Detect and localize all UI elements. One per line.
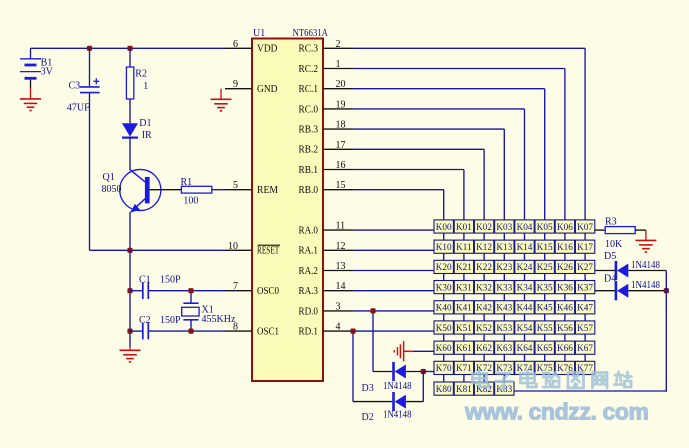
svg-text:K21: K21 [456,262,472,272]
svg-text:1: 1 [143,81,148,92]
svg-text:16: 16 [336,160,346,171]
svg-text:8050: 8050 [102,184,122,195]
svg-text:K17: K17 [577,242,593,252]
svg-text:K43: K43 [496,303,512,313]
svg-text:K52: K52 [476,323,492,333]
svg-text:D3: D3 [362,383,374,394]
svg-text:RC.2: RC.2 [299,64,319,75]
svg-text:9: 9 [233,79,238,90]
svg-text:K25: K25 [537,262,553,272]
svg-text:K54: K54 [517,323,533,333]
svg-text:RA.2: RA.2 [299,266,319,277]
svg-text:K00: K00 [436,222,452,232]
svg-text:C3: C3 [69,80,81,91]
svg-text:K62: K62 [476,343,492,353]
svg-text:C2: C2 [139,315,151,326]
svg-text:RB.0: RB.0 [299,185,319,196]
svg-text:K34: K34 [517,282,533,292]
svg-text:K20: K20 [436,262,452,272]
svg-text:K26: K26 [557,262,573,272]
svg-text:2: 2 [336,39,341,50]
svg-text:K42: K42 [476,303,492,313]
svg-text:K74: K74 [517,363,533,373]
svg-text:K60: K60 [436,343,452,353]
svg-text:13: 13 [336,261,346,272]
svg-text:R3: R3 [605,216,617,227]
svg-text:K05: K05 [537,222,553,232]
svg-text:K61: K61 [456,343,472,353]
svg-text:47UF: 47UF [67,102,90,113]
svg-text:K22: K22 [476,262,492,272]
svg-text:K12: K12 [476,242,492,252]
svg-text:K27: K27 [577,262,593,272]
svg-text:1: 1 [336,59,341,70]
svg-text:D4: D4 [604,273,616,284]
svg-text:K51: K51 [456,323,472,333]
svg-text:D1: D1 [139,118,151,129]
svg-text:K80: K80 [436,384,452,394]
svg-text:K23: K23 [496,262,512,272]
svg-text:RB.2: RB.2 [299,145,319,156]
svg-text:K15: K15 [537,242,553,252]
svg-text:12: 12 [336,241,346,252]
svg-text:1N4148: 1N4148 [631,280,660,291]
svg-text:K14: K14 [517,242,533,252]
svg-text:K63: K63 [496,343,512,353]
svg-text:Q1: Q1 [103,172,115,183]
svg-text:1N4148: 1N4148 [383,381,412,392]
svg-text:K33: K33 [496,282,512,292]
svg-text:150P: 150P [160,274,181,285]
svg-text:C1: C1 [139,274,151,285]
svg-text:K31: K31 [456,282,472,292]
svg-text:RC.1: RC.1 [299,84,319,95]
svg-text:10: 10 [228,241,238,252]
svg-text:RA.3: RA.3 [299,286,319,297]
svg-text:RA.0: RA.0 [299,226,319,237]
svg-text:11: 11 [336,221,346,232]
svg-text:17: 17 [336,140,346,151]
svg-text:K13: K13 [496,242,512,252]
svg-text:K56: K56 [557,323,573,333]
svg-text:K37: K37 [577,282,593,292]
svg-text:RC.0: RC.0 [299,104,319,115]
svg-text:OSC1: OSC1 [257,327,279,338]
svg-text:RD.1: RD.1 [299,327,319,338]
svg-text:K41: K41 [456,303,472,313]
svg-text:K65: K65 [537,343,553,353]
svg-text:RESET: RESET [257,246,279,257]
svg-text:20: 20 [336,79,346,90]
svg-text:RA.1: RA.1 [299,246,319,257]
svg-text:K57: K57 [577,323,593,333]
svg-text:K04: K04 [517,222,533,232]
svg-text:K40: K40 [436,303,452,313]
svg-text:D2: D2 [362,412,374,423]
svg-text:K07: K07 [577,222,593,232]
svg-text:K45: K45 [537,303,553,313]
svg-text:K35: K35 [537,282,553,292]
svg-text:VDD: VDD [257,44,278,55]
svg-text:K47: K47 [577,303,593,313]
svg-text:K81: K81 [456,384,472,394]
svg-text:K55: K55 [537,323,553,333]
svg-text:U1: U1 [253,28,265,39]
svg-text:IR: IR [142,130,152,141]
svg-text:RB.3: RB.3 [299,125,319,136]
svg-text:GND: GND [257,84,278,95]
svg-text:14: 14 [336,281,346,292]
svg-text:455KHz: 455KHz [202,314,236,325]
svg-text:3V: 3V [41,66,54,77]
svg-text:1N4148: 1N4148 [383,410,412,421]
svg-text:K02: K02 [476,222,492,232]
svg-text:1N4148: 1N4148 [631,260,660,271]
svg-text:150P: 150P [160,315,181,326]
svg-text:4: 4 [336,322,341,333]
svg-text:K67: K67 [577,343,593,353]
svg-text:K53: K53 [496,323,512,333]
svg-text:6: 6 [233,39,238,50]
svg-text:K03: K03 [496,222,512,232]
svg-text:K44: K44 [517,303,533,313]
svg-text:K66: K66 [557,343,573,353]
svg-text:5: 5 [233,180,238,191]
svg-text:RC.3: RC.3 [299,44,319,55]
svg-text:K10: K10 [436,242,452,252]
svg-text:19: 19 [336,99,346,110]
svg-text:R1: R1 [181,177,193,188]
svg-text:RB.1: RB.1 [299,165,319,176]
svg-text:10K: 10K [605,239,623,250]
svg-text:NT6631A: NT6631A [293,28,329,39]
svg-text:K50: K50 [436,323,452,333]
svg-text:18: 18 [336,120,346,131]
svg-text:100: 100 [183,196,198,207]
svg-text:OSC0: OSC0 [257,286,279,297]
svg-text:7: 7 [233,281,238,292]
svg-text:K36: K36 [557,282,573,292]
svg-text:K16: K16 [557,242,573,252]
svg-text:REM: REM [257,185,278,196]
svg-text:D5: D5 [604,251,616,262]
svg-text:RD.0: RD.0 [299,306,319,317]
svg-text:www. cndzz. com: www. cndzz. com [464,399,649,425]
svg-text:K70: K70 [436,363,452,373]
svg-text:K06: K06 [557,222,573,232]
svg-text:K11: K11 [456,242,472,252]
svg-text:K46: K46 [557,303,573,313]
svg-text:K24: K24 [517,262,533,272]
svg-text:R2: R2 [135,69,147,80]
svg-text:K32: K32 [476,282,492,292]
svg-text:K30: K30 [436,282,452,292]
svg-text:K64: K64 [517,343,533,353]
svg-text:K01: K01 [456,222,472,232]
svg-text:K71: K71 [456,363,472,373]
svg-text:3: 3 [336,301,341,312]
svg-text:15: 15 [336,180,346,191]
